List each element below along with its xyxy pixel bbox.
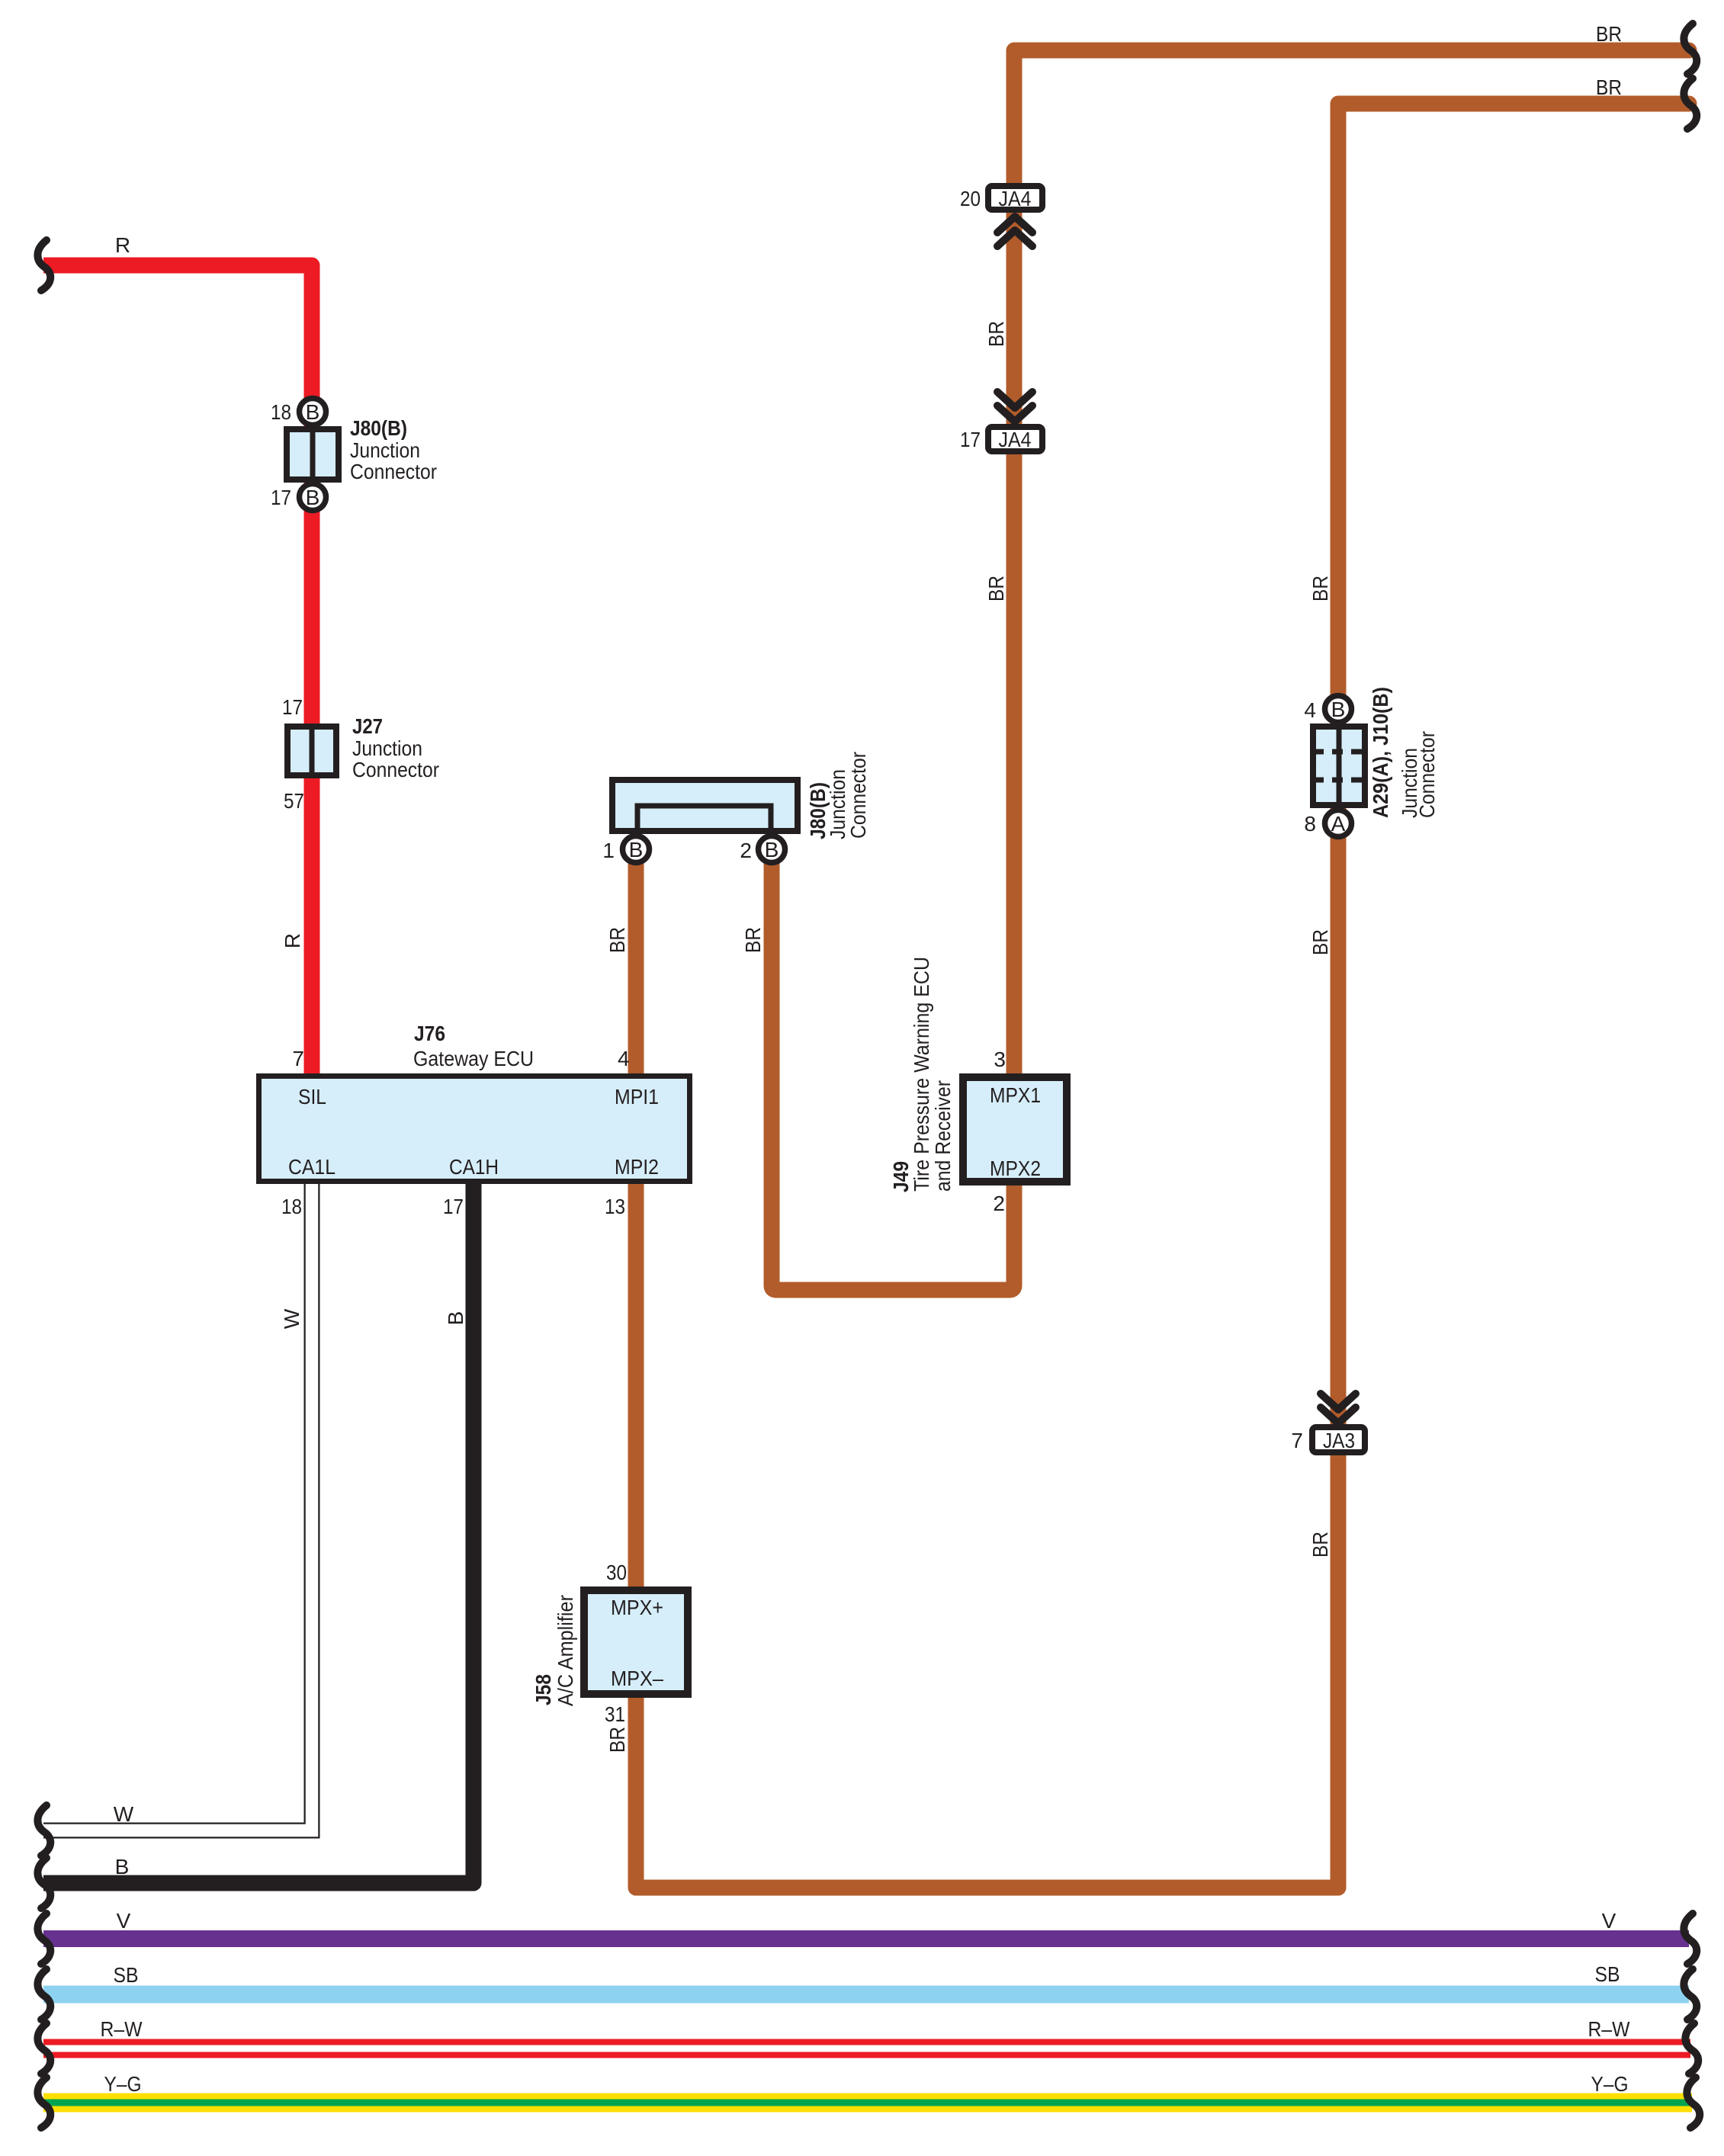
connector JA4 pin 17 bbox=[960, 427, 1042, 451]
connector JA4 pin 20 bbox=[960, 186, 1042, 210]
break SB right bbox=[1684, 1969, 1697, 2020]
svg-text:W: W bbox=[114, 1802, 134, 1826]
break V left bbox=[37, 1914, 50, 1964]
JA4 box bbox=[988, 186, 1042, 210]
svg-text:2: 2 bbox=[740, 839, 752, 862]
svg-text:BR: BR bbox=[605, 1727, 629, 1753]
svg-text:CA1L: CA1L bbox=[288, 1155, 335, 1179]
svg-text:A29(A), J10(B): A29(A), J10(B) bbox=[1369, 687, 1392, 818]
chevrons above JA4 17 bbox=[997, 392, 1032, 408]
svg-text:MPX2: MPX2 bbox=[990, 1157, 1041, 1180]
pin A circle 8 bbox=[1325, 810, 1352, 837]
connector JA3 pin 7 bbox=[1291, 1427, 1365, 1452]
svg-text:BR: BR bbox=[1308, 576, 1332, 602]
svg-text:4: 4 bbox=[1304, 698, 1316, 722]
svg-text:B: B bbox=[306, 400, 320, 424]
break Y-G left bbox=[37, 2077, 50, 2128]
svg-text:B: B bbox=[765, 838, 779, 861]
pin B circle 18 bbox=[300, 399, 326, 425]
wire V (violet) bbox=[43, 1930, 1689, 1947]
break R left bbox=[37, 240, 50, 290]
JA4 box bbox=[988, 427, 1042, 451]
wire BR right: right break down right side, bottom run, up to J80(B) pin 1 / J58 bbox=[636, 104, 1689, 1888]
wire BR from J80(B) pin 2 down, right, up to J49 pin 2 bbox=[772, 849, 1014, 1290]
svg-text:BR: BR bbox=[1596, 75, 1622, 99]
svg-text:BR: BR bbox=[984, 321, 1008, 347]
wire W (white) from J76 CA1L pin 18 to left break bbox=[43, 1184, 312, 1830]
svg-text:JA4: JA4 bbox=[999, 187, 1032, 210]
svg-text:4: 4 bbox=[618, 1047, 630, 1070]
svg-text:R–W: R–W bbox=[101, 2017, 143, 2041]
J80(B) body bbox=[287, 429, 339, 480]
wire R-W (red/white stripe) bbox=[43, 2039, 1690, 2058]
svg-text:Gateway ECU: Gateway ECU bbox=[413, 1047, 534, 1070]
svg-text:B: B bbox=[115, 1855, 130, 1878]
svg-text:B: B bbox=[629, 838, 644, 861]
JA3 box bbox=[1312, 1427, 1365, 1452]
pin B circle 2 bbox=[759, 836, 785, 863]
svg-text:JA3: JA3 bbox=[1323, 1429, 1355, 1452]
svg-text:57: 57 bbox=[284, 789, 304, 813]
svg-text:Junction: Junction bbox=[352, 736, 422, 760]
break V right bbox=[1684, 1914, 1697, 1964]
svg-text:Y–G: Y–G bbox=[1591, 2072, 1629, 2096]
svg-text:R–W: R–W bbox=[1588, 2017, 1630, 2041]
svg-text:B: B bbox=[306, 486, 320, 509]
svg-text:BR: BR bbox=[1596, 22, 1622, 46]
svg-text:JA4: JA4 bbox=[999, 428, 1032, 451]
svg-text:V: V bbox=[1602, 1909, 1616, 1933]
J58 body bbox=[584, 1590, 688, 1694]
J80(B) bus body bbox=[612, 780, 798, 831]
junction connector J80(B) upper on red wire bbox=[271, 399, 437, 511]
break B left bbox=[37, 1858, 50, 1908]
J27 body bbox=[287, 727, 336, 775]
break SB left bbox=[37, 1969, 50, 2020]
svg-text:BR: BR bbox=[741, 927, 765, 953]
break BR1 right bbox=[1684, 24, 1697, 74]
svg-text:Connector: Connector bbox=[350, 460, 437, 483]
svg-text:R: R bbox=[115, 233, 130, 257]
svg-text:A/C Amplifier: A/C Amplifier bbox=[554, 1595, 577, 1706]
svg-text:20: 20 bbox=[960, 187, 981, 210]
svg-text:SB: SB bbox=[114, 1963, 139, 1987]
svg-text:18: 18 bbox=[271, 400, 291, 424]
svg-text:J76: J76 bbox=[414, 1022, 445, 1045]
svg-text:Connector: Connector bbox=[846, 752, 870, 839]
chevrons above JA3 bbox=[1321, 1394, 1356, 1410]
ECU J49 Tire Pressure Warning ECU and Receiver bbox=[889, 957, 1067, 1215]
wire BR top: right break via JA4 connectors down to J49 pin 3 bbox=[1014, 50, 1689, 1073]
ECU J58 A/C Amplifier bbox=[531, 1561, 688, 1726]
pin B circle 4 bbox=[1325, 696, 1352, 723]
svg-text:BR: BR bbox=[605, 927, 629, 953]
svg-text:13: 13 bbox=[605, 1195, 625, 1218]
svg-text:B: B bbox=[1331, 698, 1346, 721]
svg-text:17: 17 bbox=[960, 428, 981, 451]
ECU J76 Gateway ECU bbox=[259, 1022, 690, 1218]
svg-text:BR: BR bbox=[984, 576, 1008, 602]
chevrons below JA4 20 bbox=[997, 217, 1032, 233]
svg-text:BR: BR bbox=[1308, 1532, 1332, 1558]
svg-text:A: A bbox=[1331, 812, 1346, 836]
bus bar bbox=[637, 806, 771, 833]
wire SB (sky blue) bbox=[43, 1986, 1689, 2004]
svg-text:and Receiver: and Receiver bbox=[931, 1080, 955, 1192]
svg-text:Connector: Connector bbox=[1415, 731, 1439, 818]
pin B circle 17 bbox=[300, 484, 326, 511]
svg-text:Y–G: Y–G bbox=[104, 2072, 142, 2096]
svg-text:SB: SB bbox=[1595, 1962, 1620, 1986]
svg-text:R: R bbox=[281, 933, 304, 948]
svg-text:J27: J27 bbox=[352, 714, 383, 738]
svg-text:Junction: Junction bbox=[350, 438, 420, 462]
svg-text:Connector: Connector bbox=[352, 758, 439, 781]
svg-text:SIL: SIL bbox=[298, 1085, 326, 1108]
svg-text:BR: BR bbox=[1308, 929, 1332, 955]
svg-text:MPI1: MPI1 bbox=[615, 1085, 659, 1108]
svg-text:B: B bbox=[444, 1311, 467, 1326]
wire R (red) from left break to J76 pin 7 bbox=[43, 265, 312, 1073]
svg-text:Tire Pressure Warning ECU: Tire Pressure Warning ECU bbox=[910, 957, 933, 1192]
A29/J10 body bbox=[1313, 727, 1365, 805]
junction connector A29(A), J10(B) on right BR wire bbox=[1304, 687, 1439, 837]
svg-text:MPX–: MPX– bbox=[611, 1667, 663, 1690]
svg-text:MPX1: MPX1 bbox=[990, 1083, 1041, 1107]
svg-text:J58: J58 bbox=[531, 1674, 555, 1705]
break W left bbox=[37, 1805, 50, 1856]
svg-text:V: V bbox=[117, 1909, 131, 1933]
wire B (black) from J76 CA1H pin 17 to left break bbox=[43, 1184, 474, 1883]
break Y-G right bbox=[1687, 2077, 1700, 2128]
junction connector J80(B) horizontal bus bbox=[602, 752, 870, 863]
svg-text:8: 8 bbox=[1304, 812, 1316, 836]
break R-W left bbox=[37, 2023, 50, 2074]
break R-W right bbox=[1685, 2023, 1698, 2074]
svg-text:17: 17 bbox=[271, 486, 291, 509]
svg-text:31: 31 bbox=[605, 1702, 625, 1726]
svg-text:17: 17 bbox=[443, 1195, 464, 1218]
svg-text:3: 3 bbox=[994, 1048, 1006, 1071]
junction connector J27 on red wire bbox=[282, 695, 439, 813]
J49 body bbox=[963, 1077, 1067, 1182]
J76 body bbox=[259, 1076, 690, 1182]
svg-text:7: 7 bbox=[1291, 1429, 1303, 1452]
svg-text:17: 17 bbox=[282, 695, 303, 719]
svg-text:18: 18 bbox=[281, 1195, 302, 1218]
svg-text:MPX+: MPX+ bbox=[611, 1596, 663, 1619]
svg-text:MPI2: MPI2 bbox=[615, 1155, 659, 1179]
svg-text:30: 30 bbox=[606, 1561, 627, 1584]
svg-text:J80(B): J80(B) bbox=[350, 416, 407, 440]
svg-text:CA1H: CA1H bbox=[449, 1155, 499, 1179]
svg-text:W: W bbox=[280, 1308, 303, 1329]
svg-text:1: 1 bbox=[602, 839, 615, 862]
break BR2 right bbox=[1684, 79, 1697, 129]
pin B circle 1 bbox=[623, 836, 650, 863]
wire Y-G (yellow/green stripe) bbox=[43, 2093, 1692, 2113]
svg-text:7: 7 bbox=[292, 1047, 304, 1070]
svg-text:2: 2 bbox=[993, 1192, 1005, 1215]
